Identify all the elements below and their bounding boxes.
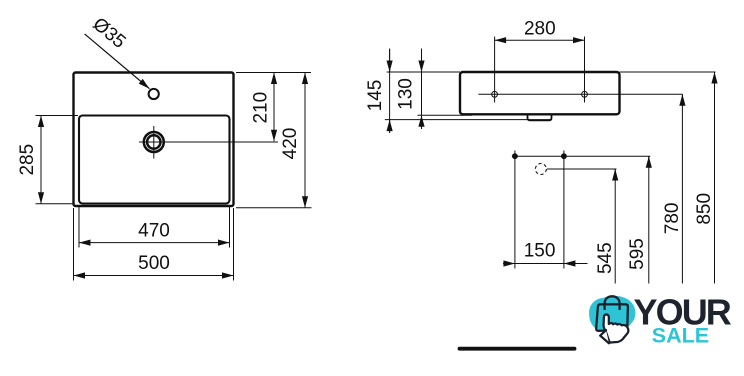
label 210 (250, 92, 271, 124)
svg-text:420: 420 (280, 128, 301, 160)
front view inner basin (79, 116, 230, 204)
logo bag handle (605, 296, 620, 311)
side view body (460, 72, 620, 114)
svg-text:130: 130 (396, 78, 417, 110)
extension line top right of front view (236, 72, 311, 74)
extension line basin top left (36, 115, 79, 117)
extension line left of side view top (387, 71, 460, 73)
dimension 280 line (495, 39, 585, 41)
dimension 285 line (40, 116, 42, 204)
svg-text:210: 210 (250, 92, 271, 124)
drain inner circle (147, 135, 160, 148)
front view outer rim (74, 73, 234, 207)
label 145 (365, 80, 386, 112)
svg-text:Ø35: Ø35 (89, 14, 130, 53)
logo hand cursor (600, 314, 628, 343)
label O35 (89, 14, 130, 53)
label 130 (396, 78, 417, 110)
arrow 150 left (504, 263, 515, 265)
dimension 595 line (648, 156, 650, 283)
label 285 (17, 144, 38, 176)
dimension 210 line (273, 73, 275, 142)
label 470 (138, 221, 170, 242)
extension line 150 left (514, 151, 516, 269)
svg-text:500: 500 (138, 253, 170, 274)
label 780 (662, 203, 683, 235)
extension line 130 bottom (418, 114, 473, 116)
extension line 145 bottom (385, 119, 552, 121)
arrow 850 (714, 72, 716, 84)
logo yoursale (589, 291, 732, 347)
trap level line 595 (512, 155, 650, 157)
extension line 280 left (494, 37, 496, 103)
svg-text:545: 545 (595, 242, 616, 274)
label 545 (595, 242, 616, 274)
label 420 (280, 128, 301, 160)
logo bag body (596, 304, 628, 331)
label 280 (524, 19, 556, 40)
svg-text:280: 280 (524, 19, 556, 40)
extension line 500 left (73, 208, 75, 281)
label 850 (694, 193, 715, 225)
extension line 470 right (229, 206, 231, 248)
drain centerline to 210 dimension (139, 141, 278, 143)
leader line O35 (85, 34, 150, 89)
extension line 500 right (233, 208, 235, 281)
fixing hole left (492, 91, 498, 97)
extension line 280 right (584, 37, 586, 103)
label 500 (138, 253, 170, 274)
dimension 145 line (389, 49, 391, 134)
dimension 470 line (79, 242, 230, 244)
faucet hole (149, 89, 159, 99)
fixing hole right (582, 91, 588, 97)
arrow 145 top (389, 49, 391, 72)
fixing holes centerline (478, 93, 682, 95)
arrow 595 (648, 156, 650, 168)
svg-text:150: 150 (524, 241, 556, 262)
dimension 130 line (421, 49, 423, 130)
svg-text:470: 470 (138, 221, 170, 242)
svg-text:285: 285 (17, 144, 38, 176)
arrow 145 bottom (389, 120, 391, 133)
drain crosshair vertical (153, 126, 155, 159)
underline bar (460, 347, 575, 351)
extension line right of side view top (620, 71, 716, 73)
arrow 780 (681, 94, 683, 106)
dimension 500 line (74, 275, 234, 277)
dimension 780 line (681, 94, 683, 283)
extension line basin bottom left (36, 203, 75, 205)
svg-text:SALE: SALE (652, 324, 709, 348)
extension line 150 right (563, 151, 565, 269)
label 595 (627, 238, 648, 270)
extension line 470 left (78, 206, 80, 248)
node dot right (561, 153, 567, 159)
arrow 150 right (564, 263, 585, 265)
drain outer circle (144, 132, 164, 152)
svg-text:850: 850 (694, 193, 715, 225)
node dot left (512, 153, 518, 159)
dimension 420 line (304, 73, 306, 208)
logo hand cuff (600, 330, 609, 343)
side view drain boss (528, 114, 552, 120)
arrow 130 bottom (421, 115, 423, 128)
logo bag handle notches (605, 305, 620, 310)
extension line bottom right of front view (236, 207, 312, 209)
arrow 130 top (421, 49, 423, 72)
dimension 850 line (714, 72, 716, 284)
svg-text:595: 595 (627, 238, 648, 270)
dimension 150 line (503, 263, 588, 265)
siphon dashed circle (535, 164, 546, 175)
svg-text:780: 780 (662, 203, 683, 235)
label 150 (524, 241, 556, 262)
siphon level line 545 (547, 168, 617, 170)
logo teal blob (589, 296, 635, 331)
dimension 545 line (614, 169, 616, 284)
arrow 545 (614, 169, 616, 181)
svg-text:145: 145 (365, 80, 386, 112)
